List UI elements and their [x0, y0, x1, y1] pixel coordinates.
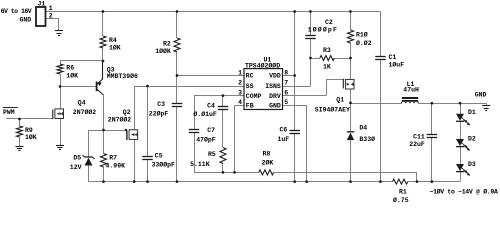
svg-text:Q4: Q4	[78, 100, 86, 107]
svg-text:D3: D3	[468, 161, 476, 168]
svg-text:C2: C2	[325, 19, 333, 26]
svg-text:Q2: Q2	[123, 109, 131, 116]
svg-text:MMBT39Ø6: MMBT39Ø6	[107, 72, 138, 80]
svg-text:1ØØØpF: 1ØØØpF	[308, 26, 338, 34]
svg-text:R2: R2	[163, 40, 171, 47]
svg-text:C11: C11	[413, 133, 425, 140]
svg-text:6: 6	[284, 89, 288, 96]
svg-text:SI94Ø7AEY: SI94Ø7AEY	[315, 105, 350, 113]
svg-text:1ØuF: 1ØuF	[389, 60, 405, 68]
svg-text:22uF: 22uF	[409, 141, 425, 148]
svg-text:22ØpF: 22ØpF	[149, 109, 169, 117]
svg-text:R9: R9	[25, 127, 33, 134]
svg-text:1ØK: 1ØK	[66, 72, 78, 80]
svg-text:33ØØpF: 33ØØpF	[152, 160, 176, 168]
svg-text:GND: GND	[19, 17, 31, 24]
svg-text:Ø.Ø2: Ø.Ø2	[356, 39, 372, 47]
svg-text:TPS4Ø2ØØD: TPS4Ø2ØØD	[245, 61, 280, 69]
svg-text:Ø.Ø1uF: Ø.Ø1uF	[193, 110, 217, 118]
svg-text:6V to 16V: 6V to 16V	[1, 8, 32, 15]
svg-text:5: 5	[284, 99, 288, 106]
svg-text:C6: C6	[280, 127, 288, 134]
svg-text:5.11K: 5.11K	[190, 161, 210, 168]
svg-text:DRV: DRV	[269, 93, 281, 100]
svg-text:C3: C3	[157, 101, 165, 108]
svg-text:1: 1	[49, 5, 53, 12]
svg-text:2N7ØØ2: 2N7ØØ2	[108, 115, 132, 123]
svg-text:4: 4	[238, 99, 242, 106]
svg-text:D1: D1	[468, 109, 476, 116]
svg-text:2: 2	[49, 12, 53, 19]
svg-text:Ø.75: Ø.75	[393, 196, 409, 203]
svg-text:D5: D5	[73, 154, 81, 161]
svg-text:3: 3	[238, 89, 242, 96]
svg-text:C7: C7	[207, 127, 215, 134]
svg-text:Q1: Q1	[336, 97, 344, 104]
svg-text:C5: C5	[155, 153, 163, 160]
svg-text:2N7ØØ2: 2N7ØØ2	[73, 108, 97, 116]
svg-text:B33Ø: B33Ø	[359, 135, 375, 143]
svg-text:2ØK: 2ØK	[262, 159, 274, 167]
svg-text:R4: R4	[109, 37, 117, 44]
svg-text:D4: D4	[359, 124, 367, 131]
svg-text:47ØpF: 47ØpF	[196, 136, 216, 144]
svg-text:1K: 1K	[323, 64, 331, 71]
svg-text:RC: RC	[246, 73, 254, 80]
svg-text:1uF: 1uF	[278, 136, 290, 143]
svg-text:COMP: COMP	[246, 93, 262, 100]
svg-text:R8: R8	[263, 151, 271, 158]
svg-text:4.99K: 4.99K	[106, 162, 126, 169]
svg-text:SS: SS	[246, 83, 254, 90]
svg-text:1ØK: 1ØK	[25, 133, 37, 141]
svg-text:1: 1	[238, 69, 242, 76]
svg-text:−1ØV to −14V @ Ø.9A: −1ØV to −14V @ Ø.9A	[430, 188, 498, 196]
svg-text:7: 7	[284, 80, 288, 87]
svg-text:ISNS: ISNS	[265, 83, 281, 90]
svg-text:R5: R5	[208, 151, 216, 158]
svg-text:2: 2	[238, 80, 242, 87]
svg-text:1ØK: 1ØK	[109, 44, 121, 52]
svg-text:47uH: 47uH	[403, 86, 419, 93]
svg-text:R7: R7	[109, 155, 117, 162]
svg-text:C1: C1	[389, 54, 397, 61]
svg-text:C4: C4	[207, 103, 215, 110]
svg-text:VDD: VDD	[269, 73, 281, 80]
svg-text:FB: FB	[246, 103, 254, 110]
svg-text:1ØØK: 1ØØK	[155, 47, 171, 55]
svg-text:GND: GND	[269, 103, 281, 110]
svg-text:J1: J1	[38, 1, 46, 8]
svg-text:R1: R1	[399, 189, 407, 196]
svg-text:12V: 12V	[70, 164, 82, 171]
svg-text:8: 8	[284, 69, 288, 76]
svg-text:R1Ø: R1Ø	[356, 31, 368, 39]
svg-text:R6: R6	[66, 64, 74, 71]
svg-text:D2: D2	[468, 135, 476, 142]
svg-text:PWM: PWM	[3, 109, 15, 116]
svg-text:GND: GND	[475, 92, 487, 99]
svg-text:R3: R3	[323, 47, 331, 54]
